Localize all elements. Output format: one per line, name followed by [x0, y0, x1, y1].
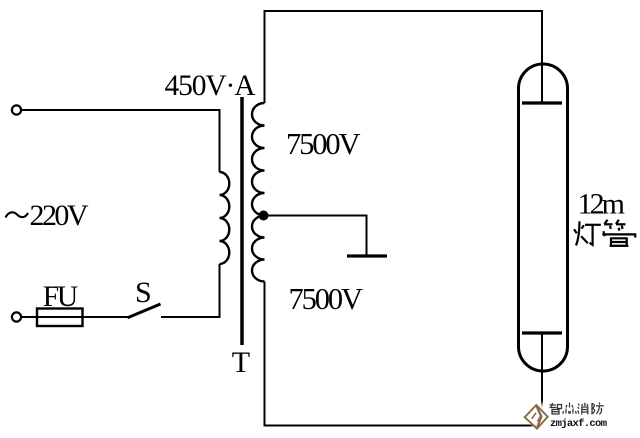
wire center tap to ground [266, 216, 367, 255]
svg-text:FU: FU [43, 281, 78, 313]
lamp electrode bottom [522, 331, 562, 334]
svg-text:7500V: 7500V [289, 282, 364, 316]
winding primary of transformer T [220, 172, 230, 264]
svg-text:12m: 12m [578, 188, 626, 221]
watermark logo diamond [525, 405, 548, 429]
terminal X1 top input [12, 105, 21, 114]
label 灯管 lamp-tube characters (drawn) [574, 220, 635, 246]
wire top input to primary winding [22, 110, 220, 172]
terminal X2 bottom input [12, 312, 21, 321]
node center tap junction [259, 211, 269, 221]
wire loop left top (secondary top to lamp top) [265, 11, 543, 103]
svg-text:zmjaxf.com: zmjaxf.com [550, 418, 607, 430]
watermark white glow patch [533, 404, 560, 432]
switch S blade [128, 304, 161, 318]
svg-text:7500V: 7500V [286, 127, 361, 161]
svg-text:S: S [135, 276, 152, 309]
fuse FU body [37, 309, 83, 327]
svg-text:T: T [232, 346, 250, 379]
lamp tube 12m outline [519, 64, 568, 371]
lamp electrode top [522, 101, 562, 104]
watermark text 智淼消防 (drawn) [550, 403, 604, 415]
winding secondary upper 7500V [252, 103, 265, 216]
wire bottom input through fuse to switch [22, 316, 128, 318]
winding secondary lower 7500V [252, 216, 265, 282]
svg-text:450V·A: 450V·A [165, 70, 257, 102]
label ~220V tilde [6, 212, 29, 217]
svg-text:220V: 220V [30, 199, 89, 232]
wire primary bottom to switch [161, 264, 220, 317]
transformer T core [240, 97, 244, 345]
wire loop left bottom (secondary bottom to lamp bottom) [265, 282, 543, 426]
ground bar [347, 254, 387, 257]
